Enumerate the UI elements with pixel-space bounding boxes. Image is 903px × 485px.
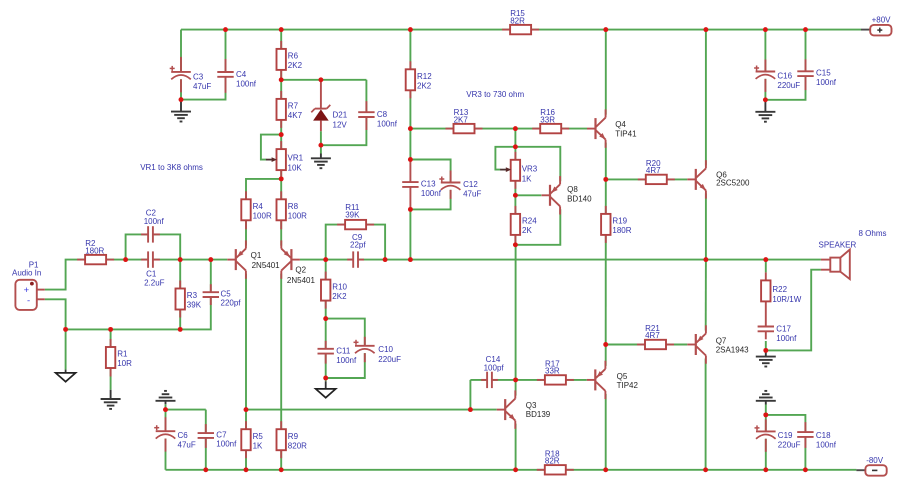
svg-text:100nf: 100nf [816,441,837,450]
wire driver line C14/R17 [470,379,586,381]
svg-text:C10: C10 [378,345,393,354]
junction bus/C18 [803,467,808,472]
capacitor C14 (100pf) [481,355,504,388]
svg-text:180R: 180R [85,246,104,255]
junction C14/R17/Q3 collector [513,377,518,382]
svg-text:100nf: 100nf [144,217,165,226]
wire C8 column [321,80,367,145]
junction C1/R3 [178,257,183,262]
junction rail/C15 [803,27,808,32]
wire bias line R12 to Q4 base [410,128,587,130]
svg-text:100R: 100R [288,212,307,221]
svg-text:1K: 1K [253,441,263,450]
svg-text:C8: C8 [377,110,388,119]
wire C17 bottom gap [765,341,767,350]
svg-text:C4: C4 [236,70,247,79]
wire Q2 collector to R9 [280,274,282,470]
svg-text:47uF: 47uF [178,440,196,449]
wire Q1 collector drop [245,274,247,410]
wire -80V terminal lead [856,469,865,471]
wire C7 column [205,410,207,470]
svg-text:82R: 82R [545,457,560,466]
wire R22 top gap [765,260,767,273]
junction out/Q6/Q7 [703,257,708,262]
svg-text:C1: C1 [146,270,157,279]
junction bus/R9 [279,467,284,472]
wire C4 column [181,30,226,100]
wire VR3 top node drop [514,129,516,147]
svg-text:D21: D21 [333,111,348,120]
wire R3 column [179,260,181,330]
junction C6/C7 node [163,407,168,412]
svg-text:C5: C5 [221,289,232,298]
svg-text:R8: R8 [288,202,299,211]
resistor R9 (820R) [277,421,308,458]
svg-text:100nf: 100nf [216,440,237,449]
junction bus/R5 [244,467,249,472]
wire VR3 column [514,147,516,196]
capacitor C3 (47uF, electrolytic) [170,57,212,92]
svg-text:R19: R19 [612,217,627,226]
wire R6/D21/C8 node [281,79,366,81]
svg-text:R10: R10 [332,282,347,291]
transistor Q1 (2N5401) [227,240,280,278]
capacitor C4 (100nf) [217,59,256,93]
svg-text:2K2: 2K2 [332,292,347,301]
wire +80V terminal lead [861,29,870,31]
wire C6 column [165,410,167,470]
svg-text:4R7: 4R7 [645,331,660,340]
wire C13 bottom to output rail [409,209,411,259]
svg-text:39K: 39K [187,301,202,310]
wire Q4 emitter to R19 node [605,143,607,180]
svg-text:VR3 to 730 ohm: VR3 to 730 ohm [466,90,524,99]
wire C12 loop [410,160,450,210]
svg-text:100nf: 100nf [377,120,398,129]
junction VR3 bottom/Q8 base [513,193,518,198]
svg-text:2N5401: 2N5401 [287,276,316,285]
svg-text:4R7: 4R7 [646,166,661,175]
resistor R24 (2K) [511,206,538,243]
svg-text:Q3: Q3 [526,401,537,410]
wire R4 feed from VR1 [246,179,281,246]
ground (above C6, inverted) [156,391,176,404]
svg-text:100nf: 100nf [776,334,797,343]
svg-text:BD139: BD139 [526,410,551,419]
svg-text:C16: C16 [777,72,792,81]
wire R24 node drop to Q3 collector [515,245,517,396]
junction R24 bottom [513,242,518,247]
wire VAS line R20 [606,178,688,180]
svg-text:R9: R9 [288,432,299,441]
wire C14 branch riser [469,380,471,410]
svg-text:R12: R12 [417,72,432,81]
svg-text:2SC5200: 2SC5200 [716,179,750,188]
capacitor C1 (2.2uF) [141,251,165,287]
wire C18 column [766,415,806,470]
resistor R12 (2K2) [406,61,433,98]
wire C11 column [325,319,327,378]
wire C19 column [765,415,767,470]
capacitor C6 (47uF, electrolytic) [154,417,196,451]
ground (above C19, inverted) [756,391,776,405]
svg-text:R4: R4 [253,202,264,211]
svg-text:-: - [27,296,30,307]
wire R10 column [325,260,327,319]
junction R6/R7/D21 [279,77,284,82]
junction R19/R21/Q5 [603,342,608,347]
junction rail/C16 [763,27,768,32]
svg-text:R24: R24 [522,217,537,226]
wire Q6 collector riser [705,30,707,166]
svg-text:10K: 10K [288,163,303,172]
wire Q6 emitter drop [705,193,707,259]
wire Q7 emitter riser [705,260,707,331]
svg-text:Q8: Q8 [567,185,578,194]
svg-text:R22: R22 [772,285,787,294]
resistor R18 (82R) [537,449,574,474]
capacitor C13 (100nf) [402,159,441,210]
junction bus/Q3 emitter [513,467,518,472]
junction input bus/P1- [63,327,68,332]
ground (input ground, triangle) [56,370,76,382]
wire Q5 collector drop [605,394,607,470]
junction VR1 bottom [279,176,284,181]
wire C6 ground stem gap [165,404,167,409]
svg-text:2K7: 2K7 [454,115,469,124]
svg-text:2.2uF: 2.2uF [144,279,165,288]
svg-text:82R: 82R [510,16,525,25]
wire Q5/Q7 line R21 [606,344,688,346]
wire C11 ground stem [325,378,327,381]
resistor R13 (2K7) [446,108,483,133]
svg-text:C7: C7 [216,431,227,440]
capacitor C18 (100nf) [797,422,836,449]
junction rail/R12 [408,27,413,32]
svg-text:2K2: 2K2 [288,61,303,70]
svg-text:2N5401: 2N5401 [252,261,281,270]
svg-text:1K: 1K [522,174,532,183]
svg-text:BD140: BD140 [567,194,592,203]
resistor R20 (4R7) [638,159,675,184]
svg-text:10R/1W: 10R/1W [772,295,801,304]
ground (below C17) [756,350,776,366]
junction C17 bottom [763,348,768,353]
svg-text:100nf: 100nf [421,189,442,198]
capacitor C12 (47uF, electrolytic) [439,171,481,199]
transistor Q3 (BD139) [497,390,551,428]
wire R5 column [245,410,247,470]
svg-text:47uF: 47uF [193,82,211,91]
wire R8 feed from VR1 [280,179,282,246]
svg-text:C19: C19 [778,431,793,440]
power terminal +80V [870,16,891,36]
connector P1 (Audio In) [12,261,45,310]
wire input ground bus [66,260,211,330]
wire Q3 emitter drop [515,424,517,470]
wire R1 column [110,329,112,389]
junction D21 top [318,77,323,82]
junction bus/Q7 [703,467,708,472]
wire Q8 emitter link [515,147,560,182]
junction C3 bottom [179,97,184,102]
capacitor C15 (100nf) [797,59,836,90]
svg-text:100R: 100R [253,212,272,221]
junction C14 tap [468,407,473,412]
junction C13 top [408,157,413,162]
svg-text:100pf: 100pf [484,364,505,373]
junction rail/R6 [279,27,284,32]
junction R2 out [123,257,128,262]
svg-text:-80V: -80V [866,456,884,465]
junction Q4 emitter/R20/R19 [603,177,608,182]
svg-text:R6: R6 [288,52,299,61]
resistor R5 (1K) [241,421,263,458]
svg-text:R3: R3 [187,291,198,300]
ground (below C16) [755,100,775,122]
ground (below D21) [311,154,331,169]
svg-text:180R: 180R [612,226,631,235]
svg-text:Q7: Q7 [716,336,727,345]
potentiometer VR3 (1K) [495,147,537,189]
junction rail/Q6 [703,27,708,32]
capacitor C16 (220uF, electrolytic) [754,60,800,92]
wire Q4 collector riser [605,30,607,115]
resistor R22 (10R/1W) [761,272,802,304]
junction VR3 top [513,144,518,149]
svg-text:R1: R1 [117,350,128,359]
wire R11 feedback loop [326,225,385,260]
capacitor C8 (100nf) [358,101,397,130]
svg-text:Q1: Q1 [251,251,262,260]
transistor Q8 (BD140) [542,176,593,214]
capacitor C17 (100nf) [758,324,797,343]
junction R12/R13 [408,126,413,131]
capacitor C2 (100nf) [141,208,164,242]
junction C19 top [763,412,768,417]
junction R7/VR1 [279,132,284,137]
wire C6/C7 ground link [166,409,206,411]
svg-text:Audio In: Audio In [12,269,41,278]
svg-text:820R: 820R [288,441,307,450]
svg-text:220uF: 220uF [378,355,401,364]
wire +80V rail [181,29,861,31]
junction C16 bottom [763,97,768,102]
wire -80V bus [166,469,857,471]
resistor R15 (82R) [502,9,539,34]
power terminal -80V [865,456,886,476]
svg-text:8 Ohms: 8 Ohms [859,229,887,238]
capacitor C10 (220uF, electrolytic) [354,337,402,364]
resistor R19 (180R) [601,206,632,243]
resistor R21 (4R7) [637,324,674,349]
transistor Q4 (TIP41) [587,109,637,147]
junction out/R22 [763,257,768,262]
junction R5/Q1 collector [244,407,249,412]
svg-text:VR1 to 3K8 ohms: VR1 to 3K8 ohms [140,163,203,172]
svg-text:100nf: 100nf [336,356,357,365]
svg-text:Q4: Q4 [615,120,626,129]
resistor R2 (180R) [77,239,114,264]
resistor R4 (100R) [241,191,272,229]
svg-text:33R: 33R [540,115,555,124]
junction D21 bottom [318,143,323,148]
svg-text:SPEAKER: SPEAKER [819,241,857,250]
ground (below R1) [101,390,121,409]
svg-text:12V: 12V [333,121,348,130]
wire R6/R7/VR1 column [280,30,282,179]
wire R22 to C17 link [765,301,767,326]
resistor R1 (10R) [106,339,132,377]
wire C3 column [180,30,182,100]
svg-text:100nf: 100nf [816,78,837,87]
resistor R10 (2K2) [321,272,348,309]
junction bus/Q5 [603,467,608,472]
wire R12/C13 column [409,30,411,160]
svg-text:TIP42: TIP42 [617,381,639,390]
junction bus/C19 [763,467,768,472]
capacitor C9 (22pf) [347,233,366,268]
svg-text:C6: C6 [178,431,189,440]
resistor R16 (33R) [532,108,569,133]
resistor R11 (39K) [337,203,374,229]
wire Q7 collector drop [705,359,707,470]
junction rail/C4 [223,27,228,32]
svg-text:C3: C3 [193,72,204,81]
wire R19 column [605,179,607,344]
transistor Q6 (2SC5200) [687,160,750,198]
junction C11 bottom [323,376,328,381]
speaker LS1 (8 Ohms) [819,229,887,279]
wire Q8 collector link [515,209,560,245]
capacitor C19 (220uF, electrolytic) [755,419,801,451]
svg-text:220uF: 220uF [778,441,801,450]
svg-text:4K7: 4K7 [288,111,303,120]
svg-text:Q2: Q2 [295,266,306,275]
transistor Q7 (2SA1943) [687,325,749,363]
resistor R3 (39K) [176,281,202,318]
ground (below C11, triangle) [316,381,336,397]
wire C19 ground stem gap [765,405,767,415]
resistor R17 (33R) [537,359,574,384]
wire Q3 base line [246,409,497,411]
svg-text:R7: R7 [288,102,299,111]
wire speaker return [766,270,821,351]
svg-text:C11: C11 [336,347,351,356]
transistor Q5 (TIP42) [587,361,639,399]
diode D21 (12V zener) [311,80,347,131]
junction C5 top [208,257,213,262]
svg-text:+80V: +80V [872,16,892,25]
wire Q5 emitter riser [605,345,607,366]
junction Q2 base/R11 [323,257,328,262]
junction input bus/R1 [108,327,113,332]
svg-text:2K2: 2K2 [417,82,432,91]
svg-text:TIP41: TIP41 [615,130,637,139]
svg-text:C13: C13 [421,179,436,188]
svg-text:2K: 2K [522,226,532,235]
svg-text:VR3: VR3 [522,164,538,173]
svg-text:33R: 33R [545,367,560,376]
junction R11 right [383,257,388,262]
svg-text:+: + [24,285,30,296]
junction input bus/R3 [178,327,183,332]
wire D21 bottom to ground node [320,131,322,153]
svg-text:100nf: 100nf [236,80,257,89]
svg-text:10R: 10R [117,359,132,368]
wire C15 column [765,30,805,100]
wire C16 column [764,30,766,100]
svg-text:R5: R5 [253,432,264,441]
wire Q8 base link [515,194,541,196]
wire input bus ground drop [65,329,67,369]
wire R24 column [514,195,516,245]
junction R13/R16/VR3 [513,126,518,131]
ground (below C3) [171,100,191,122]
capacitor C7 (100nf) [198,424,237,449]
svg-text:47uF: 47uF [463,190,481,199]
resistor R6 (2K2) [277,41,303,80]
svg-text:220pf: 220pf [221,299,242,308]
svg-text:C15: C15 [816,68,831,77]
wire P1 - to input ground bus [45,299,66,329]
junction out/C13 branch [408,257,413,262]
svg-text:22pf: 22pf [350,240,366,249]
wire P1 + to R2 [45,260,85,290]
resistor R7 (4K7) [277,91,303,128]
svg-text:C17: C17 [776,324,791,333]
resistor R8 (100R) [277,191,308,229]
svg-text:220uF: 220uF [777,81,800,90]
transistor Q2 (2N5401) [281,240,315,284]
svg-text:Q5: Q5 [617,372,628,381]
wire output rail [300,259,821,261]
potentiometer VR1 (10K) [261,135,304,179]
svg-text:39K: 39K [345,210,360,219]
junction R10 bottom [323,316,328,321]
svg-text:2SA1943: 2SA1943 [716,346,749,355]
capacitor C11 (100nf) [318,341,357,365]
junction rail/Q4 [603,27,608,32]
wire C2 bypass loop [126,234,181,259]
capacitor C5 (220pf) [203,284,242,307]
svg-text:C12: C12 [463,180,478,189]
junction bus/C7 [203,467,208,472]
wire C10 loop [326,319,365,378]
svg-text:VR1: VR1 [288,154,304,163]
wire input signal line [106,259,227,261]
svg-text:C18: C18 [816,431,831,440]
junction C13 bottom [408,207,413,212]
